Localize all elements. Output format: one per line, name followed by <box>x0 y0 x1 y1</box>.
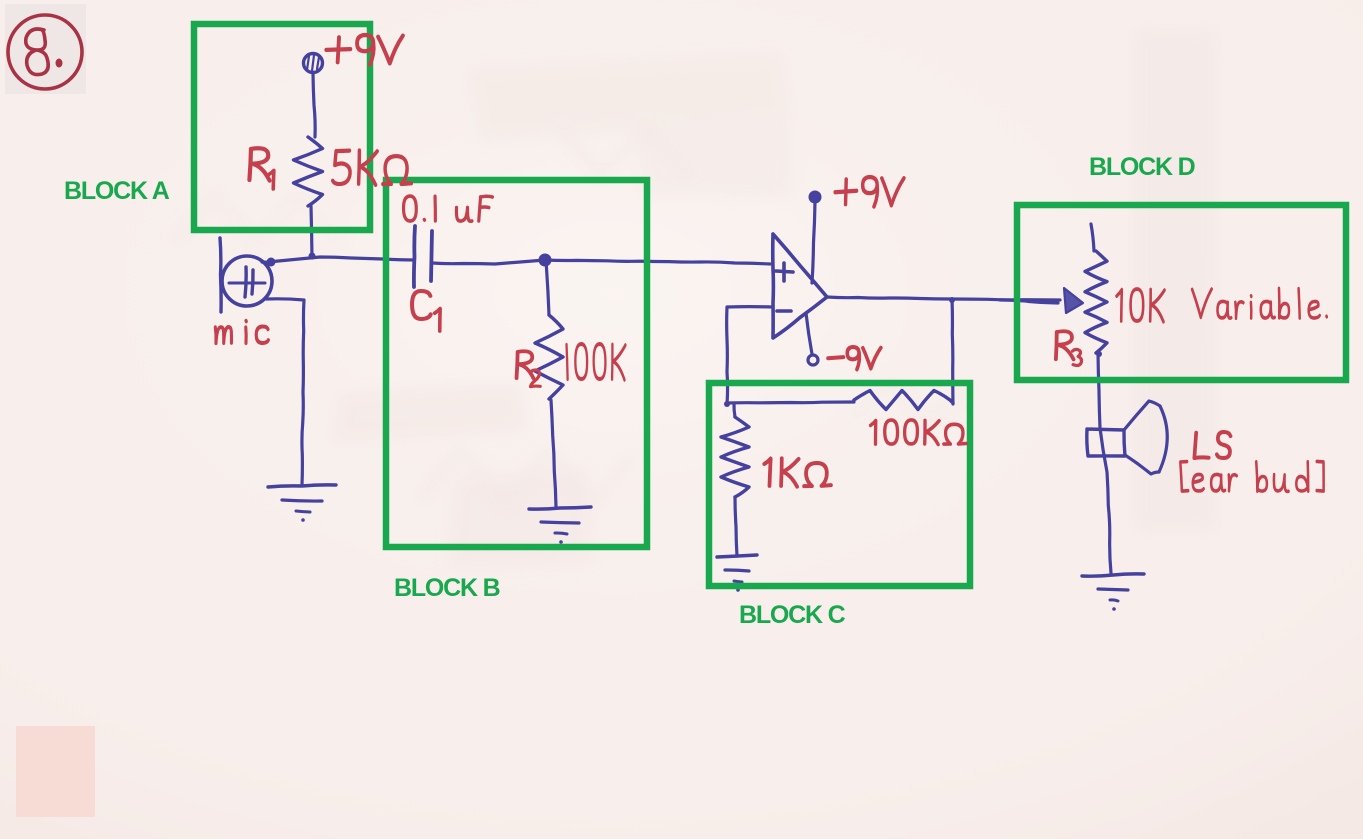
svg-text:BLOCK D: BLOCK D <box>1089 153 1195 181</box>
svg-text:BLOCK B: BLOCK B <box>394 574 500 602</box>
svg-text:BLOCK A: BLOCK A <box>64 177 170 205</box>
svg-text:BLOCK C: BLOCK C <box>739 601 846 629</box>
